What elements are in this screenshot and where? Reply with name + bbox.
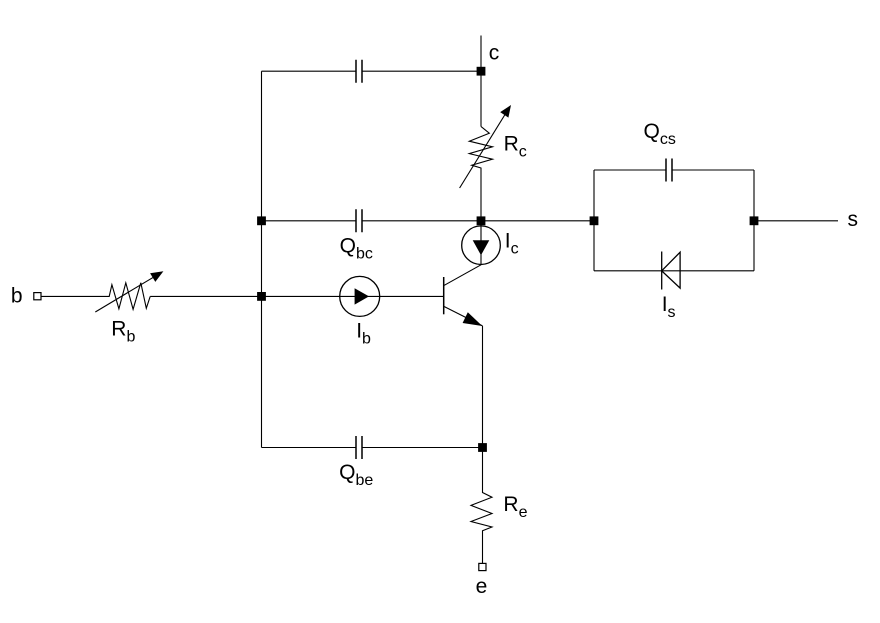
wire (collector terminal lead): [480, 36, 482, 127]
wire (base rail to transistor): [262, 295, 444, 297]
wire (left bus vertical): [261, 71, 263, 447]
current source I_b: [340, 276, 380, 316]
svg-text:s: s: [848, 208, 859, 231]
wire (loop top rail right): [673, 169, 755, 171]
capacitor Q_cs: [666, 159, 672, 182]
terminal b: [34, 293, 41, 300]
wire (middle rail right): [363, 220, 595, 222]
wire (loop top rail left): [594, 169, 666, 171]
transistor Q (npn): [443, 277, 445, 314]
wire: [150, 295, 261, 297]
wire (emitter vertical): [482, 326, 484, 448]
wire (bottom rail right): [363, 447, 483, 449]
resistor R_e: [471, 448, 492, 564]
node (loop right): [750, 216, 759, 225]
node (bus / base wire): [257, 292, 266, 301]
wire (to substrate terminal): [754, 220, 838, 222]
wire (loop left vertical): [593, 170, 595, 271]
wire (loop right vertical): [753, 170, 755, 271]
node (middle rail / collector chain): [477, 216, 486, 225]
node (bus / middle rail): [257, 216, 266, 225]
resistor R_b: [106, 283, 150, 310]
capacitor (top): [356, 60, 362, 83]
wire (loop bottom rail): [594, 270, 754, 272]
svg-text:c: c: [489, 41, 500, 64]
current source I_c: [462, 226, 501, 265]
svg-text:e: e: [476, 575, 488, 598]
wire (top rail left): [262, 70, 356, 72]
wire (middle rail left): [262, 220, 356, 222]
wire: [41, 295, 106, 297]
resistor R_c: [469, 127, 492, 221]
node (collector / top rail): [477, 67, 486, 76]
svg-text:b: b: [11, 284, 23, 307]
node (bottom rail / emitter chain): [478, 443, 487, 452]
wire (top rail right): [363, 70, 482, 72]
capacitor Q_be: [356, 436, 362, 459]
wire (bottom rail left): [262, 447, 356, 449]
node (loop left): [590, 216, 599, 225]
capacitor Q_bc: [356, 209, 362, 232]
terminal e: [479, 563, 486, 570]
diode I_s: [661, 252, 663, 290]
